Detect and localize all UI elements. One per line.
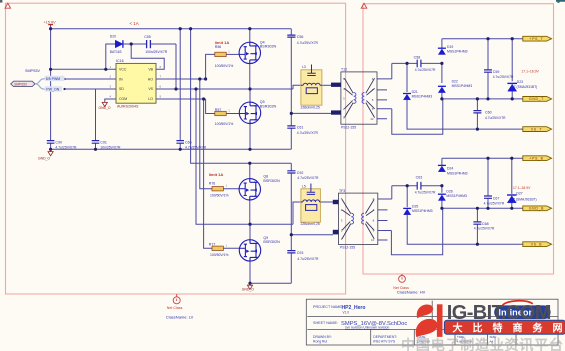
- capacitor C61: [287, 126, 318, 136]
- wire C55 right to VS: [150, 44, 176, 89]
- net class region LV border: [6, 3, 346, 294]
- svg-text:PS12-155: PS12-155: [341, 125, 356, 129]
- wire TF3 primary return to midpoint: [291, 234, 333, 236]
- svg-text:C67: C67: [493, 196, 500, 200]
- svg-text:22Bohm0,25: 22Bohm0,25: [301, 106, 320, 110]
- svg-text:D24: D24: [447, 167, 453, 171]
- diode D22 MSS1P4HM3: [438, 79, 472, 92]
- svg-text:Z (SMAJ931BT): Z (SMAJ931BT): [513, 197, 537, 201]
- svg-text:D21: D21: [412, 90, 418, 94]
- svg-text:R56: R56: [215, 45, 221, 49]
- svg-text:4.7u/25V/X7R: 4.7u/25V/X7R: [297, 176, 319, 180]
- svg-text:4.7u/25V/X7R: 4.7u/25V/X7R: [297, 41, 319, 45]
- wire COM pin to ground: [105, 99, 116, 102]
- wire Q5 source: [249, 123, 251, 149]
- svg-text:D27: D27: [516, 192, 522, 196]
- net class region HV border: [363, 4, 554, 274]
- svg-text:COM: COM: [119, 97, 127, 101]
- svg-text:D26: D26: [446, 189, 452, 193]
- net class directive HV: [393, 274, 425, 295]
- port VS_T: [523, 127, 552, 132]
- resistor R56: [215, 45, 233, 68]
- wire group: all plain wires: [51, 25, 333, 283]
- wire L5 output to TF3: [320, 201, 333, 203]
- wire R77 to Q9 gate: [223, 247, 239, 249]
- svg-text:LO: LO: [148, 97, 153, 101]
- wire R57 drop: [206, 99, 215, 114]
- wire VS_T rail to port: [407, 100, 523, 129]
- svg-text:TF3: TF3: [339, 189, 345, 193]
- svg-text:5/5 PWM: 5/5 PWM: [46, 77, 60, 81]
- diode D19 MSS1P4HM3: [438, 45, 468, 55]
- diode D21 MSS1P4HM3: [403, 90, 432, 100]
- svg-text:10n/25V/X7R: 10n/25V/X7R: [100, 145, 121, 149]
- wire Q8 drain: [249, 163, 251, 179]
- T12 pin bars left: [331, 83, 341, 87]
- svg-text:C93: C93: [297, 251, 304, 255]
- svg-text:T12: T12: [341, 68, 347, 72]
- watermark big-bit logo: [416, 304, 443, 337]
- svg-text:+15.8V: +15.8V: [44, 21, 57, 25]
- svg-text:GND_O: GND_O: [99, 106, 111, 110]
- svg-text:DEPARTMENT:: DEPARTMENT:: [373, 335, 397, 339]
- svg-text:100/50V/1%: 100/50V/1%: [215, 64, 233, 68]
- svg-text:C90: C90: [55, 140, 62, 144]
- wire VS switch node: [156, 85, 301, 89]
- svg-text:100n/25V/X7R: 100n/25V/X7R: [145, 50, 168, 54]
- wire GND_B rail to port: [442, 207, 523, 209]
- diode D26 MSS1P4HM3: [438, 189, 467, 200]
- svg-text:SMPS5V: SMPS5V: [14, 82, 28, 86]
- wire T12 primary return to midpoint: [291, 112, 331, 114]
- svg-text:MSS1P4HM3: MSS1P4HM3: [447, 171, 468, 175]
- svg-text:IC16: IC16: [116, 59, 124, 63]
- watermark infineon logo: [494, 305, 550, 319]
- wire +15.8V vertical rail: [50, 25, 52, 140]
- wire +PS_B rail to port: [442, 157, 523, 159]
- svg-text:GND_O: GND_O: [242, 288, 254, 292]
- transformer T12 PS12-155: [331, 68, 377, 130]
- wire TF3 pin6 riser: [391, 186, 393, 199]
- resistor R76: [209, 182, 229, 198]
- ground GND_O below C90: [38, 149, 53, 160]
- watermark red banner: [444, 320, 565, 334]
- wire SD / PW_ON signal: [65, 88, 117, 90]
- wire IN signal: [65, 78, 117, 80]
- capacitor C59: [484, 70, 514, 79]
- port VS_B: [523, 242, 552, 247]
- capacitor C67: [484, 196, 505, 206]
- svg-text:SHEET NAME:: SHEET NAME:: [313, 321, 338, 325]
- wire cap-divider rail (C56/C61 midpoint): [290, 29, 292, 150]
- T12 pin numbers: [343, 77, 374, 121]
- svg-text:22Bohm0,25: 22Bohm0,25: [301, 222, 320, 226]
- wire R76 to Q8 gate: [223, 188, 239, 190]
- svg-text:4.7u/25V/X7R: 4.7u/25V/X7R: [493, 75, 514, 79]
- svg-text:100/50V/1%: 100/50V/1%: [210, 253, 228, 257]
- wire bootstrap to VB pin: [131, 44, 164, 69]
- svg-text:4.7u/25V/X7R: 4.7u/25V/X7R: [55, 145, 77, 149]
- svg-text:BSR302N: BSR302N: [263, 240, 280, 244]
- wire HO output: [156, 78, 206, 80]
- diode D20 BAT163: [110, 35, 123, 55]
- zener D23 SMAJ931BT: [507, 69, 539, 91]
- wire D20 cathode to junction: [123, 43, 147, 45]
- wire D27 legs: [511, 158, 513, 208]
- svg-text:C58: C58: [414, 55, 421, 59]
- svg-text:C63: C63: [416, 176, 423, 180]
- svg-text:MSS1P4HM3: MSS1P4HM3: [452, 84, 473, 88]
- svg-text:L3: L3: [302, 65, 306, 69]
- wire C60 legs: [476, 99, 478, 129]
- svg-text:C60: C60: [485, 111, 492, 115]
- svg-text:+PS_B: +PS_B: [529, 157, 543, 161]
- svg-text:100/50V/1%: 100/50V/1%: [210, 193, 228, 197]
- capacitor C60: [473, 111, 506, 120]
- wire L3 output to T12: [322, 84, 332, 86]
- wire C66 branch: [179, 29, 181, 150]
- wire +PS_T rail to port: [442, 38, 523, 40]
- svg-text:MSS1P4HM3: MSS1P4HM3: [446, 194, 467, 198]
- op-amp / driver IC16 AUIRS2004S: [110, 59, 162, 108]
- svg-text:DRAWN BY:: DRAWN BY:: [313, 335, 332, 339]
- wire D23 legs: [511, 39, 513, 99]
- svg-text:4.7u/25V/X7R: 4.7u/25V/X7R: [484, 202, 505, 206]
- svg-text:V1.0: V1.0: [343, 311, 350, 315]
- svg-text:C91: C91: [100, 140, 107, 144]
- svg-text:10: 10: [371, 238, 375, 242]
- svg-text:C56: C56: [297, 35, 304, 39]
- capacitor C55: [144, 35, 168, 54]
- wire group: secondary side: [377, 39, 523, 255]
- svg-text:C59: C59: [493, 70, 500, 74]
- net class directive LV: [166, 294, 194, 320]
- svg-text:limit 1A: limit 1A: [209, 172, 224, 177]
- svg-text:+PS_T: +PS_T: [530, 37, 544, 41]
- svg-text:HO: HO: [148, 77, 154, 81]
- port +PS_T: [523, 36, 552, 41]
- svg-text:IFBJ ATV SYS: IFBJ ATV SYS: [373, 339, 396, 343]
- svg-text:ClassName: HV: ClassName: HV: [397, 290, 426, 295]
- svg-text:D23: D23: [517, 80, 523, 84]
- svg-text:GND_B: GND_B: [529, 207, 544, 211]
- port GND_T: [523, 97, 552, 102]
- port GND_B: [523, 206, 552, 211]
- svg-text:VS_B: VS_B: [531, 243, 543, 247]
- wire VS descender to bridge2 switch node: [196, 89, 301, 224]
- capacitor C68: [473, 222, 495, 231]
- wire Q4 drain: [249, 29, 251, 43]
- wire GND rail bridge2: [250, 282, 291, 284]
- wire T12 pin6 riser: [391, 63, 393, 79]
- harness brace: [35, 79, 45, 90]
- svg-text:Z (SMAJ931BT): Z (SMAJ931BT): [514, 85, 538, 89]
- svg-text:4.7u/25V/X7R: 4.7u/25V/X7R: [415, 190, 436, 194]
- svg-text:Net Class: Net Class: [167, 306, 183, 310]
- svg-text:17.1–18.9V: 17.1–18.9V: [513, 186, 531, 190]
- wire D26 legs: [441, 186, 443, 209]
- svg-text:MSS1P4HM3: MSS1P4HM3: [412, 209, 433, 213]
- capacitor C90: [47, 140, 77, 149]
- ground GND_O bridge2: [242, 283, 254, 291]
- svg-text:D19: D19: [447, 45, 453, 49]
- svg-text:4.7u/25V/X7R: 4.7u/25V/X7R: [415, 68, 436, 72]
- wire D19 cathode to +PS_T rail: [441, 39, 443, 48]
- harness signal PW_ON: [45, 86, 63, 91]
- svg-text:中国电子制造业资讯平台: 中国电子制造业资讯平台: [401, 337, 564, 351]
- svg-text:BAT163: BAT163: [110, 50, 122, 54]
- TF3 pin bars left: [333, 200, 339, 204]
- net class marker triangle LV: [5, 3, 11, 8]
- inductor L3 (ferrite bead): [301, 65, 322, 110]
- capacitor C56: [287, 35, 318, 45]
- svg-text:BSR302N: BSR302N: [260, 45, 277, 49]
- svg-text:GND_O: GND_O: [38, 156, 50, 160]
- inductor L5 (ferrite bead): [301, 184, 321, 227]
- wire C67 legs: [487, 158, 489, 208]
- svg-text:VS: VS: [148, 87, 153, 91]
- wire LO output: [156, 98, 206, 100]
- svg-text:svn revision Unknown revision: svn revision Unknown revision: [345, 326, 390, 330]
- svg-text:大比特商务网: 大比特商务网: [453, 321, 565, 334]
- port +PS_B: [523, 156, 552, 161]
- transistor Q4 BSR302N: [239, 42, 260, 63]
- ground GND_O at IC COM: [99, 102, 111, 109]
- power symbol +15.8V: [44, 21, 57, 25]
- wire D21 top leg: [406, 63, 408, 92]
- svg-text:D25: D25: [412, 205, 418, 209]
- transistor Q8 BSR302N: [239, 179, 260, 200]
- wire Q9 drain: [249, 224, 251, 240]
- svg-text:GND_T: GND_T: [529, 97, 544, 101]
- wire Q8 source: [249, 200, 251, 224]
- wire branch to D20 anode: [106, 44, 116, 69]
- diode D25 MSS1P4HM3: [403, 205, 432, 215]
- svg-text:D20: D20: [110, 35, 116, 39]
- wire VCC to IC pin1: [51, 68, 116, 70]
- svg-text:ClassName: LV: ClassName: LV: [166, 315, 194, 320]
- wire Q9 source: [249, 261, 251, 283]
- wire D24 cathode to +PS_B rail: [441, 158, 443, 165]
- wire TF3 pin9 return path: [391, 208, 442, 254]
- title block: [306, 299, 558, 345]
- svg-text:MSS1P4HM3: MSS1P4HM3: [447, 50, 468, 54]
- svg-text:VCC: VCC: [119, 68, 127, 72]
- transformer TF3 PS12-155: [333, 189, 378, 250]
- wire C59 legs: [487, 39, 489, 99]
- svg-text:C68: C68: [482, 222, 489, 226]
- svg-text:C55: C55: [144, 35, 151, 39]
- capacitor C63: [415, 176, 436, 195]
- svg-text:VS_T: VS_T: [531, 127, 542, 131]
- watermark infineon red swoosh: [503, 301, 533, 306]
- svg-text:100/50V/1%: 100/50V/1%: [215, 122, 233, 126]
- svg-text:PW_ON: PW_ON: [46, 88, 59, 92]
- TF3 pin numbers: [341, 197, 375, 242]
- wire +15.8V descender to bridge2 drain rail: [191, 29, 292, 164]
- svg-text:R76: R76: [209, 182, 215, 186]
- capacitor C93: [287, 251, 319, 261]
- svg-text:4.7u/25V/X7R: 4.7u/25V/X7R: [185, 145, 207, 149]
- capacitor C58: [414, 55, 436, 72]
- svg-text:MSS1P4HM3: MSS1P4HM3: [412, 94, 433, 98]
- wire T12 pin9 return path: [392, 99, 443, 134]
- wire C68 legs: [476, 208, 478, 244]
- wire Q5 drain: [249, 89, 251, 102]
- harness signal 5/5 PWM: [45, 76, 65, 81]
- svg-text:PROJECT NAME:: PROJECT NAME:: [313, 305, 343, 309]
- wire VS_B rail to port: [407, 215, 523, 244]
- svg-text:C66: C66: [185, 140, 192, 144]
- svg-text:SD: SD: [119, 87, 124, 91]
- capacitor C91: [92, 140, 121, 149]
- T12 winding symbol: [344, 78, 374, 117]
- wire D22 legs: [441, 63, 443, 99]
- svg-text:D22: D22: [452, 79, 458, 83]
- wire block1 rail P: [392, 62, 442, 64]
- svg-text:SMPS5V: SMPS5V: [25, 69, 41, 73]
- svg-text:4.7u/25V/X7R: 4.7u/25V/X7R: [474, 227, 495, 231]
- screen corner fragment top-left: [0, 0, 2, 3]
- svg-text:4.7u/25V/X7R: 4.7u/25V/X7R: [485, 116, 506, 120]
- svg-text:VB: VB: [148, 68, 153, 72]
- zener D27 SMAJ931BT: [507, 186, 537, 203]
- capacitor C66: [176, 140, 206, 149]
- wire top +15.8V rail horizontal: [51, 28, 292, 30]
- wire R57 to Q5 gate: [226, 113, 239, 115]
- wire TF3 pin stubs right: [378, 199, 392, 240]
- resistor R57: [215, 108, 233, 126]
- svg-text:< 1A: < 1A: [130, 21, 139, 26]
- wire HO descender to R76: [200, 79, 212, 189]
- transistor Q5 BSR302N: [239, 102, 260, 123]
- wire LO descender to R77: [204, 99, 212, 248]
- svg-text:Rong Rui: Rong Rui: [313, 339, 327, 343]
- transistor Q9 BSR302N: [239, 240, 260, 261]
- wire GND rail bridge1: [51, 148, 292, 150]
- port SMPS5V: [11, 81, 35, 86]
- TF3 winding symbol: [342, 199, 374, 239]
- diode D24 MSS1P4HM3: [438, 165, 468, 175]
- wire R56 riser: [206, 54, 215, 79]
- wire block2 rail P: [392, 185, 442, 187]
- svg-text:BSR302N: BSR302N: [260, 105, 277, 109]
- net class marker triangle HV: [361, 3, 367, 8]
- svg-text:17.1–18.9V: 17.1–18.9V: [521, 69, 539, 73]
- wire rail below C90 to gnd: [50, 143, 52, 149]
- wire R56 to Q4 gate: [226, 53, 239, 55]
- svg-text:4.7u/25V/X7R: 4.7u/25V/X7R: [297, 257, 319, 261]
- wire bridge2 cap-divider rail (C92/C93 midpoint): [290, 163, 292, 283]
- screen corner fragment top-right: [556, 0, 565, 3]
- svg-text:4.7u/25V/X7R: 4.7u/25V/X7R: [297, 131, 319, 135]
- wire PW_ON branch down to C91: [95, 89, 97, 149]
- svg-text:AUIRS2004S: AUIRS2004S: [117, 105, 139, 109]
- svg-text:BSR302N: BSR302N: [263, 179, 280, 183]
- wire T12 pin stubs right: [377, 79, 392, 119]
- resistor R77: [209, 242, 229, 257]
- capacitor C92: [287, 171, 319, 180]
- svg-text:PS12-155: PS12-155: [340, 246, 355, 250]
- svg-text:C92: C92: [297, 171, 304, 175]
- wire Q4 source: [249, 64, 251, 90]
- wire D25 top leg: [406, 186, 408, 207]
- svg-text:C61: C61: [297, 126, 304, 130]
- wire GND_T rail to port: [442, 98, 523, 100]
- svg-text:IN: IN: [119, 77, 123, 81]
- svg-text:L5: L5: [302, 184, 306, 188]
- svg-text:10: 10: [370, 117, 374, 121]
